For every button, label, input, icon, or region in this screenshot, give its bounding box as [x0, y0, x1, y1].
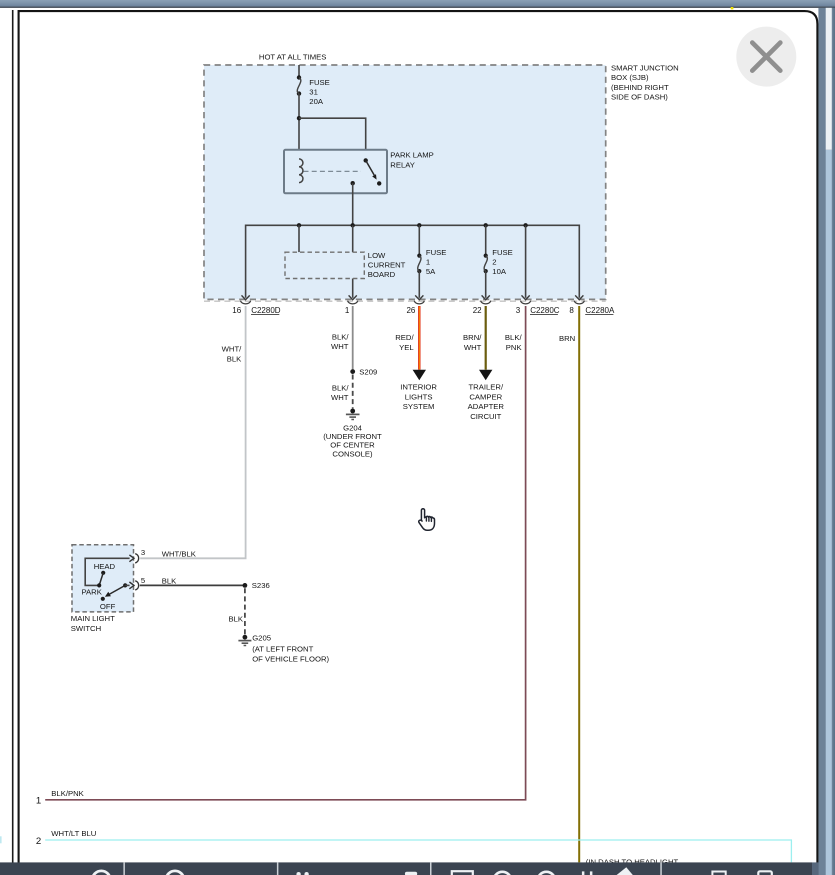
svg-text:BLK: BLK [162, 577, 177, 586]
circuit 1 BLK/PNK label [36, 789, 85, 807]
svg-text:10A: 10A [492, 267, 507, 276]
svg-text:S236: S236 [252, 581, 270, 590]
pin arrowheads at SJB bottom [242, 295, 584, 299]
svg-text:G205: G205 [252, 634, 271, 643]
svg-text:PARK LAMP: PARK LAMP [390, 151, 433, 160]
svg-text:MAIN LIGHT: MAIN LIGHT [71, 614, 115, 623]
svg-text:16: 16 [232, 306, 241, 315]
svg-text:ADAPTER: ADAPTER [468, 402, 505, 411]
arrow to trailer camper adapter circuit [468, 370, 505, 421]
mouse cursor [419, 509, 435, 531]
wire from hot feed to fuse 31 [298, 65, 300, 78]
svg-text:FUSE: FUSE [492, 248, 513, 257]
wire RED/YEL pin 26 [395, 306, 419, 370]
svg-text:C2280C: C2280C [530, 306, 560, 315]
wire bus to pin 3 [525, 225, 527, 297]
svg-text:BLK/: BLK/ [332, 332, 350, 341]
junction node [297, 116, 301, 120]
svg-text:BRN/: BRN/ [463, 333, 482, 342]
svg-text:SWITCH: SWITCH [71, 624, 101, 633]
label SJB name [611, 64, 679, 102]
svg-text:WHT: WHT [464, 343, 482, 352]
svg-text:WHT: WHT [331, 342, 349, 351]
svg-text:2: 2 [492, 258, 496, 267]
fuse 31 20A [297, 75, 330, 106]
svg-text:OF CENTER: OF CENTER [330, 441, 375, 450]
svg-text:CIRCUIT: CIRCUIT [470, 412, 501, 421]
relay switch blade [364, 158, 382, 185]
svg-text:FUSE: FUSE [309, 78, 330, 87]
svg-text:CURRENT: CURRENT [368, 260, 406, 269]
switch internal wiring [85, 558, 129, 585]
svg-text:26: 26 [406, 306, 415, 315]
switch position OFF [100, 597, 116, 611]
chrome: left frame lines [12, 10, 14, 863]
svg-text:5: 5 [141, 576, 145, 585]
svg-text:OF VEHICLE FLOOR): OF VEHICLE FLOOR) [252, 654, 329, 663]
wire relay output through low current board to pin 1 [352, 225, 354, 297]
svg-text:3: 3 [141, 548, 145, 557]
svg-text:2: 2 [36, 836, 41, 847]
bus junction dots [297, 223, 528, 227]
wire BLK S236 to G205 [228, 588, 244, 635]
relay actuation dashed link [304, 170, 362, 172]
svg-text:WHT: WHT [331, 393, 349, 402]
label park lamp relay [390, 151, 433, 170]
switch pin 3 terminal [125, 548, 197, 585]
wire BLK switch pin 5 to S236 [140, 584, 245, 586]
svg-text:BOARD: BOARD [368, 270, 396, 279]
pin 26 label [406, 306, 415, 315]
svg-text:HEAD: HEAD [94, 562, 116, 571]
circuit 2 WHT/LT BLU wire [36, 829, 792, 863]
svg-text:SYSTEM: SYSTEM [403, 402, 435, 411]
splice S236 [243, 581, 270, 590]
splice S209 [350, 368, 377, 377]
svg-text:BLK: BLK [228, 615, 243, 624]
svg-text:LIGHTS: LIGHTS [405, 392, 433, 401]
svg-text:1: 1 [426, 258, 430, 267]
relay coil [299, 159, 303, 183]
pin 1 label [345, 306, 350, 315]
svg-text:1: 1 [345, 306, 350, 315]
pin 22 label [473, 306, 482, 315]
main light switch box [71, 545, 134, 633]
connector row dashed line [204, 300, 606, 302]
svg-text:BRN: BRN [559, 334, 575, 343]
fuse 1 5A [417, 248, 446, 276]
svg-text:RELAY: RELAY [390, 160, 415, 169]
low current board [285, 251, 406, 279]
wire BLK/PNK pin 3 to circuit 1 [45, 306, 525, 800]
svg-text:BLK: BLK [227, 354, 242, 363]
svg-text:TRAILER/: TRAILER/ [468, 383, 503, 392]
svg-text:22: 22 [473, 306, 482, 315]
wire bus to fuse 2 [485, 225, 487, 255]
switch pin 5 terminal [129, 576, 177, 590]
arrow to interior lights system [400, 370, 437, 412]
svg-text:HOT AT ALL TIMES: HOT AT ALL TIMES [259, 53, 327, 62]
svg-text:FUSE: FUSE [426, 248, 447, 257]
svg-text:S209: S209 [359, 368, 377, 377]
stray wire sliver at left edge [0, 836, 2, 843]
chrome: right scrollbar strip [818, 8, 835, 875]
svg-text:31: 31 [309, 88, 318, 97]
park lamp relay box [284, 150, 387, 194]
svg-text:PARK: PARK [82, 588, 103, 597]
svg-text:PNK: PNK [506, 343, 523, 352]
svg-text:RED/: RED/ [395, 333, 414, 342]
svg-text:WHT/LT BLU: WHT/LT BLU [51, 829, 96, 838]
svg-text:8: 8 [569, 306, 574, 315]
pin 16 label and connector C2280D [232, 306, 280, 315]
svg-text:C2280D: C2280D [251, 306, 281, 315]
wire BLK/WHT S209 to G204 [331, 375, 353, 409]
smart junction box SJB [204, 65, 606, 299]
wire fuse 31 to relay coil [298, 94, 300, 159]
ground G205 [238, 634, 329, 664]
svg-text:1: 1 [36, 796, 41, 807]
pin 8 label and connector C2280A [569, 306, 615, 315]
switch position HEAD [94, 562, 116, 585]
relay common terminal and wire to bus [351, 181, 355, 225]
svg-text:CAMPER: CAMPER [469, 392, 502, 401]
svg-text:SIDE OF DASH): SIDE OF DASH) [611, 92, 668, 101]
svg-text:BLK/PNK: BLK/PNK [51, 789, 84, 798]
svg-text:20A: 20A [309, 97, 324, 106]
switch wiper [105, 583, 127, 596]
ground G204 [323, 409, 382, 459]
close button [736, 27, 796, 87]
wire BLK/WHT pin 1 to S209 [331, 306, 353, 372]
svg-text:LOW: LOW [368, 251, 386, 260]
svg-text:INTERIOR: INTERIOR [400, 382, 437, 391]
wire fuse 1 to pin 26 [418, 271, 420, 298]
switch position PARK [82, 583, 103, 596]
wire WHT/BLK pin 16 to switch pin 3 [140, 306, 245, 558]
svg-text:YEL: YEL [399, 343, 414, 352]
toolbar [0, 862, 819, 875]
fuse 2 10A [484, 248, 513, 276]
wire fuse 2 to pin 22 [485, 271, 487, 298]
svg-text:(AT LEFT FRONT: (AT LEFT FRONT [252, 644, 313, 653]
wire branch to relay switch contact [299, 118, 366, 160]
svg-text:WHT/BLK: WHT/BLK [162, 549, 197, 558]
svg-text:3: 3 [516, 306, 521, 315]
svg-text:OFF: OFF [100, 602, 116, 611]
svg-text:BLK/: BLK/ [332, 384, 350, 393]
chrome: top bar [0, 0, 835, 9]
svg-text:BOX (SJB): BOX (SJB) [611, 73, 649, 82]
svg-text:WHT/: WHT/ [222, 345, 243, 354]
wire bus to fuse 1 [418, 225, 420, 255]
svg-text:(BEHIND RIGHT: (BEHIND RIGHT [611, 83, 669, 92]
connector cups C2280 [241, 301, 585, 304]
svg-text:CONSOLE): CONSOLE) [332, 449, 373, 458]
svg-text:BLK/: BLK/ [505, 333, 523, 342]
svg-text:5A: 5A [426, 267, 436, 276]
svg-text:C2280A: C2280A [585, 306, 615, 315]
wire BRN/WHT pin 22 [463, 306, 486, 370]
pin 3 label and connector C2280C [516, 306, 560, 315]
bus wire inside SJB [246, 225, 580, 297]
wire BRN pin 8 [559, 306, 579, 862]
note in dash to headlight [586, 857, 679, 866]
wire bus to low current board [298, 225, 300, 252]
svg-text:(UNDER FRONT: (UNDER FRONT [323, 432, 382, 441]
svg-text:SMART JUNCTION: SMART JUNCTION [611, 64, 679, 73]
